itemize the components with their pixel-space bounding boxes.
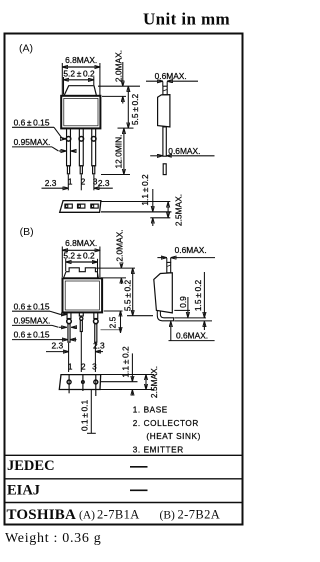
svg-text:2. COLLECTOR: 2. COLLECTOR xyxy=(133,419,199,428)
(A) bottom view pad 3 xyxy=(91,204,98,208)
svg-text:Weight : 0.36 g: Weight : 0.36 g xyxy=(5,531,101,546)
(A) lead 1 xyxy=(67,128,71,165)
table line above JEDEC row xyxy=(5,454,243,456)
(B) dim 2.3 lines xyxy=(46,332,103,372)
svg-text:(HEAT SINK): (HEAT SINK) xyxy=(146,432,201,441)
(B) side view 0.6MAX tab dim xyxy=(157,245,215,262)
svg-text:2.5MAX.: 2.5MAX. xyxy=(174,194,184,226)
(A) dim 5.2±0.2 line xyxy=(64,77,94,95)
svg-text:2.3: 2.3 xyxy=(98,178,110,188)
(A) dim 0.6±0.15 lead callout xyxy=(12,117,66,138)
svg-text:EIAJ: EIAJ xyxy=(7,483,40,499)
(B) front view body xyxy=(63,278,103,312)
(A) side view 0.6MAX lead dim xyxy=(150,146,214,156)
svg-text:6.8MAX.: 6.8MAX. xyxy=(65,55,97,65)
svg-text:2.3: 2.3 xyxy=(45,178,57,188)
(B) dim 5.5±0.2 xyxy=(123,268,153,316)
(B) dim 0.1±0.1 xyxy=(79,390,96,434)
(A) bottom view outline xyxy=(60,201,101,213)
(A) dim 2.0MAX xyxy=(98,50,140,104)
(B) bottom view hole 1 xyxy=(67,380,71,384)
table line above EIAJ row xyxy=(5,478,243,480)
svg-text:2: 2 xyxy=(81,362,86,371)
svg-text:0.6 ± 0.15: 0.6 ± 0.15 xyxy=(14,330,50,340)
JEDEC dash xyxy=(130,466,148,468)
(A) dim 0.95MAX lead callout xyxy=(12,137,76,151)
(B) side view 0.6MAX foot dim xyxy=(169,321,215,340)
svg-text:TOSHIBA: TOSHIBA xyxy=(7,507,77,523)
(A) dim 12.0MIN xyxy=(101,128,130,174)
(A) lead 1 tip xyxy=(67,166,69,174)
svg-text:12.0MIN.: 12.0MIN. xyxy=(114,135,124,169)
(B) front view body inner line xyxy=(65,281,99,310)
svg-text:(A): (A) xyxy=(79,509,95,521)
(A) lead 3 tip xyxy=(93,166,95,174)
(A) dim 1.1±0.2 xyxy=(140,174,153,226)
(A) side view 0.6MAX tab dim xyxy=(146,71,198,86)
(B) side view gull-wing lead xyxy=(157,310,173,321)
svg-text:0.6MAX.: 0.6MAX. xyxy=(168,146,200,156)
svg-text:0.6MAX.: 0.6MAX. xyxy=(176,331,208,341)
svg-text:0.6 ± 0.15: 0.6 ± 0.15 xyxy=(14,117,50,127)
svg-text:0.95MAX.: 0.95MAX. xyxy=(14,137,51,147)
svg-text:Unit in mm: Unit in mm xyxy=(143,10,230,29)
table line above TOSHIBA row xyxy=(5,502,243,504)
svg-text:0.9: 0.9 xyxy=(178,296,188,308)
svg-text:3: 3 xyxy=(92,362,97,371)
(B) dim 6.8MAX line xyxy=(62,247,100,278)
(B) bottom view hole 3 xyxy=(94,380,98,384)
svg-text:1.1 ± 0.2: 1.1 ± 0.2 xyxy=(140,174,150,206)
svg-text:0.6MAX.: 0.6MAX. xyxy=(175,245,207,255)
(A) lead 3 circle xyxy=(91,137,96,142)
(B) lead 2 xyxy=(79,312,83,316)
(A) lead 2 tip xyxy=(80,166,82,174)
(A) front view body xyxy=(61,96,100,129)
svg-text:5.5 ± 0.2: 5.5 ± 0.2 xyxy=(123,280,133,312)
svg-text:(A): (A) xyxy=(19,42,33,54)
(A) front view body inner line xyxy=(64,98,98,125)
(B) lead 1 circle xyxy=(67,319,72,324)
svg-text:JEDEC: JEDEC xyxy=(7,458,55,474)
(B) dim 2.5MAX xyxy=(146,366,159,398)
(B) side view tab xyxy=(167,262,171,272)
(B) bottom view outline xyxy=(59,375,100,390)
(B) side ticks xyxy=(174,310,212,321)
(B) side view body xyxy=(154,273,173,313)
(B) dim 5.2±0.2 line xyxy=(66,259,98,278)
(B) dim 0.9 xyxy=(178,296,188,318)
(A) lead 2 circle xyxy=(79,137,84,142)
svg-text:0.6 ± 0.15: 0.6 ± 0.15 xyxy=(14,301,50,311)
svg-text:1.5 ± 0.2: 1.5 ± 0.2 xyxy=(193,280,203,312)
(A) dim 6.8MAX line xyxy=(62,63,100,95)
svg-text:5.5 ± 0.2: 5.5 ± 0.2 xyxy=(130,94,140,126)
pin list xyxy=(133,405,201,454)
svg-text:5.2 ± 0.2: 5.2 ± 0.2 xyxy=(63,68,95,78)
(B) lead 3 circle xyxy=(94,319,99,324)
svg-text:1. BASE: 1. BASE xyxy=(133,405,168,414)
(B) dim 0.6±0.15 lower callout xyxy=(12,330,77,340)
(B) dim 1.5±0.2 xyxy=(193,272,205,330)
svg-text:0.1 ± 0.1: 0.1 ± 0.1 xyxy=(79,400,89,432)
(B) right ticks near bottom view xyxy=(100,375,154,390)
(A) dim 2.5MAX xyxy=(168,194,183,226)
svg-text:2.3: 2.3 xyxy=(93,340,105,350)
(B) lead 1 lower xyxy=(68,324,70,342)
(A) lead 2 xyxy=(79,128,83,165)
(B) dim 0.6±0.15 upper callout xyxy=(12,301,67,314)
(A) dim 2.3 lines xyxy=(42,175,113,191)
(A) lead 1 circle xyxy=(66,137,71,142)
(A) side view tab xyxy=(163,86,167,95)
EIAJ dash xyxy=(130,489,148,491)
svg-text:(B): (B) xyxy=(160,509,176,521)
svg-text:1.1 ± 0.2: 1.1 ± 0.2 xyxy=(121,346,131,378)
svg-text:2-7B1A: 2-7B1A xyxy=(97,507,140,521)
(A) dim 5.5±0.2 xyxy=(118,86,141,128)
(B) lead 1 xyxy=(67,312,71,318)
(A) bottom dims ticks xyxy=(101,202,171,218)
(B) lead 3 lower xyxy=(95,324,97,342)
(B) dim 1.1±0.2 xyxy=(121,346,133,395)
(A) bottom view pad 1 xyxy=(65,204,72,208)
svg-text:0.6MAX.: 0.6MAX. xyxy=(155,71,187,81)
(B) dim 2.5 lead length xyxy=(101,311,123,333)
(B) dim 2.0MAX xyxy=(96,229,135,284)
svg-text:0.95MAX.: 0.95MAX. xyxy=(14,316,51,326)
(A) side view body xyxy=(158,95,170,127)
(B) lead 2 circle xyxy=(80,317,83,320)
svg-text:2-7B2A: 2-7B2A xyxy=(178,507,221,521)
(A) bottom view pad 2 xyxy=(78,204,85,208)
(B) lead 2 lower xyxy=(80,320,82,331)
svg-text:5.2 ± 0.2: 5.2 ± 0.2 xyxy=(63,250,95,260)
(B) dim 0.95MAX callout xyxy=(12,316,77,328)
svg-text:6.8MAX.: 6.8MAX. xyxy=(65,238,97,248)
(A) side view lead tip xyxy=(163,164,166,175)
(A) side view lead upper xyxy=(163,127,166,156)
svg-text:2.3: 2.3 xyxy=(51,340,63,350)
svg-text:1: 1 xyxy=(68,362,73,371)
svg-text:2.0MAX.: 2.0MAX. xyxy=(113,50,123,82)
(B) front view tab with bumps xyxy=(64,268,99,278)
svg-text:2.5MAX.: 2.5MAX. xyxy=(149,366,159,398)
(B) lead 3 xyxy=(94,312,98,318)
svg-text:3. EMITTER: 3. EMITTER xyxy=(133,445,184,454)
svg-text:(B): (B) xyxy=(20,226,34,238)
(B) bottom view hole 2 xyxy=(82,381,85,384)
(A) front view tab xyxy=(64,86,97,96)
svg-text:2.5: 2.5 xyxy=(107,316,117,328)
(A) lead 3 xyxy=(92,128,96,165)
svg-text:2.0MAX.: 2.0MAX. xyxy=(114,229,124,261)
outer frame xyxy=(5,34,243,525)
